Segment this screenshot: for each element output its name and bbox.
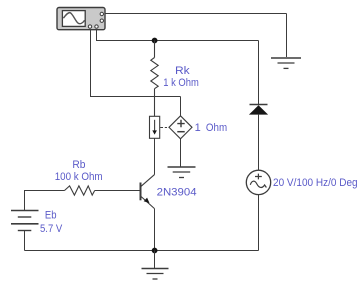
wire diamond bottom to mid ground xyxy=(180,139,182,167)
wire emitter to bottom rail xyxy=(154,209,156,251)
svg-text:1: 1 xyxy=(195,122,201,134)
svg-text:1 k Ohm: 1 k Ohm xyxy=(163,77,199,89)
wire diode to AC source xyxy=(258,115,260,171)
node junction dot (emitter/ground node) xyxy=(152,248,158,254)
wire top-right ground stem xyxy=(286,14,288,58)
wire Rb to base xyxy=(95,190,140,192)
wire scope channel to top-right ground xyxy=(105,13,287,15)
wire battery to Rb xyxy=(25,191,65,211)
AC source V1 xyxy=(246,170,270,194)
wire top rail down to diode xyxy=(258,41,260,105)
CCVS current-sense box (input branch) xyxy=(150,116,160,138)
resistor Rb (horizontal zigzag) xyxy=(65,186,95,195)
node junction dot (Rk top) xyxy=(152,38,158,44)
svg-text:Eb: Eb xyxy=(45,210,57,222)
svg-text:100 k Ohm: 100 k Ohm xyxy=(55,171,103,183)
wire top rail: scope to diode branch xyxy=(97,30,259,41)
diode D1 (cathode up) xyxy=(249,105,268,115)
wire bottom ground stem xyxy=(154,251,156,269)
svg-text:5.7 V: 5.7 V xyxy=(40,223,63,235)
oscilloscope XSC1 xyxy=(57,8,105,30)
ground (top right) xyxy=(271,58,301,68)
svg-text:Rb: Rb xyxy=(72,159,85,171)
svg-text:20 V/100 Hz/0 Deg: 20 V/100 Hz/0 Deg xyxy=(273,177,358,189)
transistor Q1 2N3904 (NPN) xyxy=(141,175,155,209)
ground (middle, under CCVS) xyxy=(168,167,196,178)
wire mid rail down to diamond top xyxy=(180,97,182,116)
CCVS V1 diamond source xyxy=(169,116,192,139)
wire bottom rail xyxy=(25,250,259,252)
resistor Rk (vertical zigzag) xyxy=(151,41,158,117)
svg-text:2N3904: 2N3904 xyxy=(157,187,197,199)
wire battery bottom to rail xyxy=(24,231,26,251)
control link (dash-dot) box to diamond xyxy=(160,127,169,129)
wire sense box to collector xyxy=(154,138,156,174)
wire AC source to bottom rail xyxy=(258,195,260,251)
wire scope probe down-left to mid rail xyxy=(91,30,181,97)
ground (bottom center) xyxy=(142,269,169,280)
battery Eb xyxy=(11,211,39,231)
svg-text:Ohm: Ohm xyxy=(206,122,227,134)
svg-text:Rk: Rk xyxy=(175,65,190,77)
